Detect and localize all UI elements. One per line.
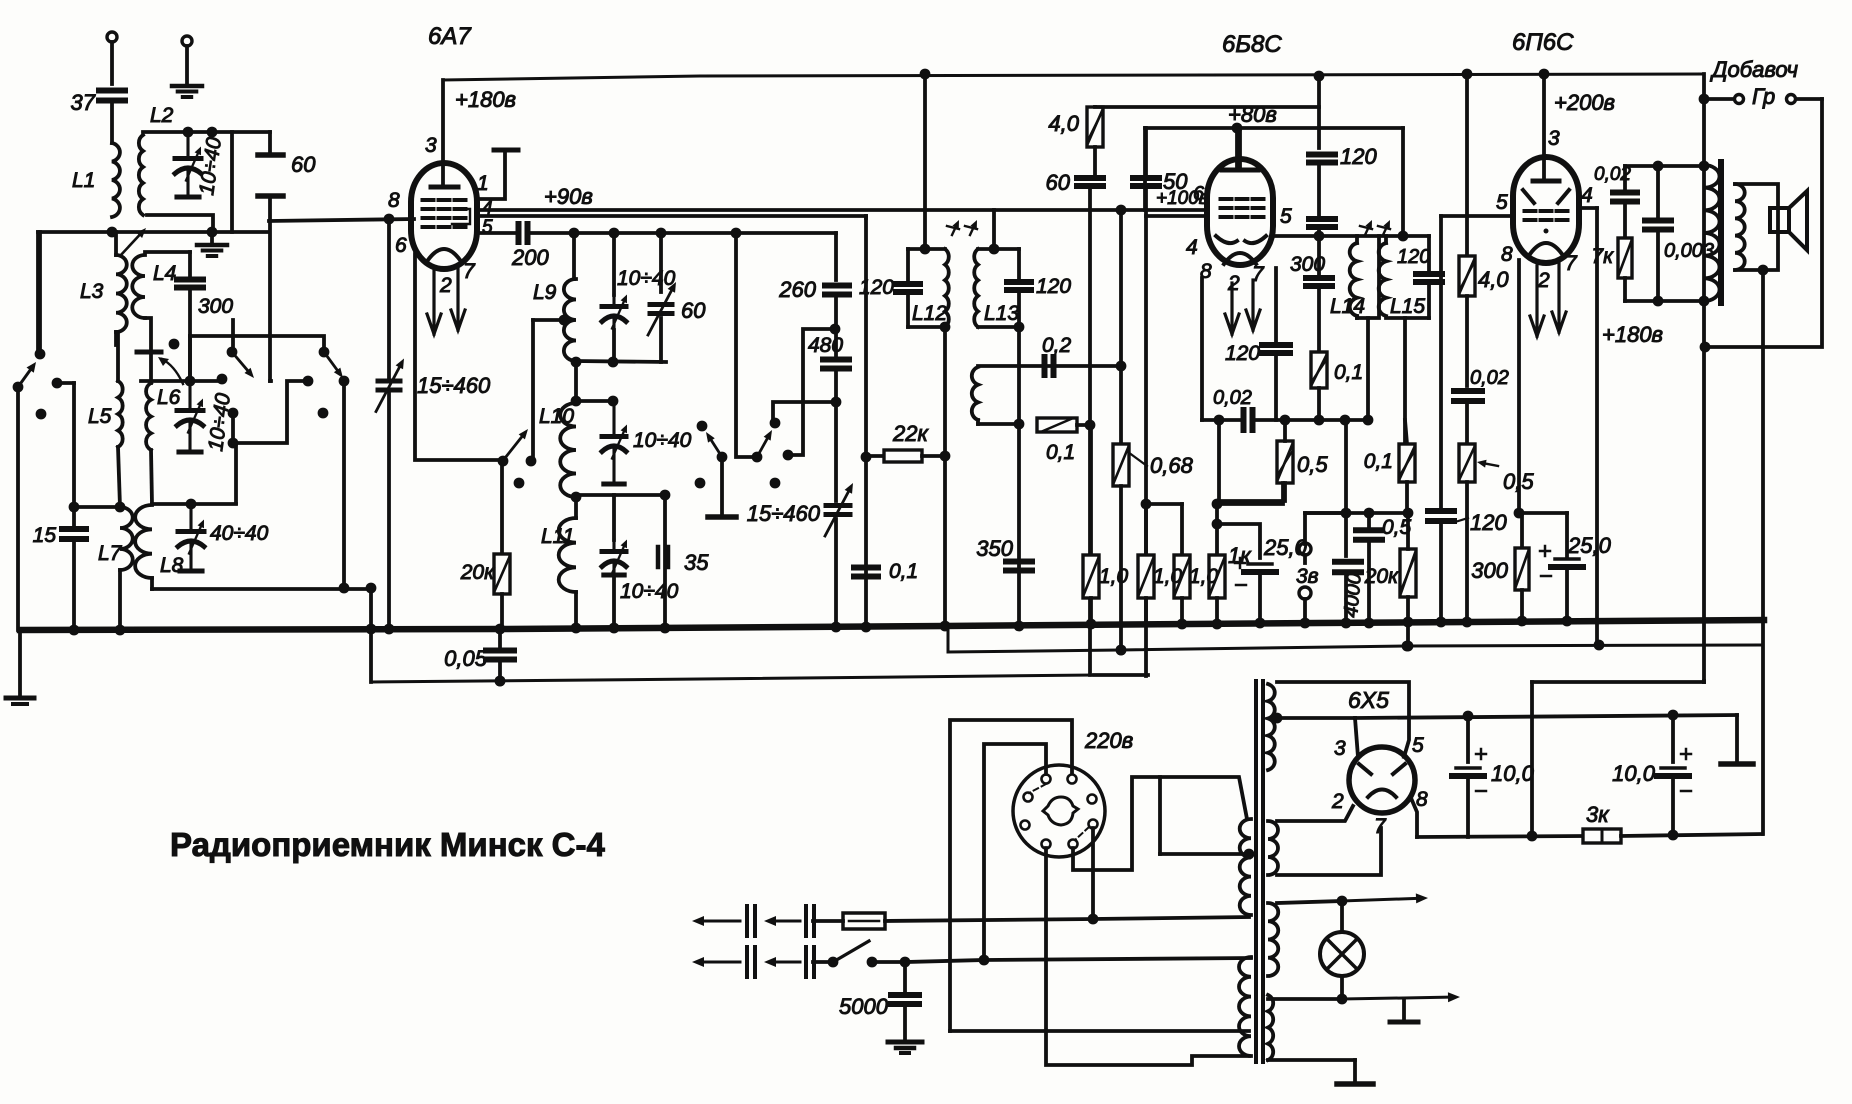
wire socket pin to primary bottom (1046, 848, 1249, 1065)
wire 6A7 signal grid to tuning (269, 219, 414, 221)
wire screen feed down (864, 216, 868, 627)
wire 4.0 top (1095, 105, 1319, 109)
inductor L6 (149, 352, 153, 383)
tube 6P6S plate bar (1533, 179, 1559, 184)
switch S1c lever (319, 347, 330, 358)
wire plate top to output transformer (1702, 74, 1706, 301)
mains plug prong upper (704, 920, 740, 923)
inductor L10 (571, 396, 582, 407)
inductor L12 tank (908, 247, 945, 251)
wire node row y232 (38, 230, 269, 234)
capacitor at pin5 node (1309, 216, 1335, 222)
inductor L8 (135, 505, 152, 578)
switch S1b lever (227, 347, 238, 358)
svg-text:+180в: +180в (455, 87, 516, 112)
tube 6X5 envelope (1349, 747, 1415, 813)
power transformer secondary HV winding (1268, 684, 1275, 770)
svg-text:300: 300 (1471, 558, 1508, 583)
resistor 0.5 detector (1277, 441, 1293, 483)
resistor 0.1 IF2 left (1311, 352, 1327, 388)
svg-text:+200в: +200в (1554, 90, 1615, 115)
svg-text:3в: 3в (1296, 565, 1319, 588)
capacitor 200 series (516, 224, 522, 242)
tube 6A7 plate bar (431, 185, 458, 190)
inductor L4 (132, 255, 145, 318)
capacitor 60 input (268, 132, 272, 153)
svg-text:7: 7 (1565, 252, 1578, 275)
wire speaker secondary return riser (1530, 682, 1534, 836)
wire socket pin to primary middle (984, 744, 1046, 960)
capacitor 0.02 tone (1623, 166, 1627, 188)
tube 6A7 grid bracket (452, 209, 470, 224)
ground at 5000 (888, 1040, 922, 1045)
ground bottom left (18, 630, 22, 697)
switch S1b contacts (228, 408, 239, 419)
wire 6P6S screen to +180 (1580, 206, 1597, 210)
fuse (843, 913, 885, 929)
tube 6B8S heater arrows (1230, 283, 1233, 334)
oscillator band switch lever left (697, 421, 708, 432)
dial lamp (1340, 901, 1344, 932)
capacitor 480 (834, 329, 838, 356)
inductor L5 (116, 332, 120, 381)
output transformer core (1718, 162, 1724, 303)
terminal 3v lower (1299, 587, 1311, 599)
ground symbol at input (172, 84, 202, 89)
wire y513 (1307, 511, 1408, 515)
capacitor 300 of L4 (177, 277, 203, 283)
svg-text:3: 3 (1548, 127, 1560, 150)
wire plate feed to L12 (923, 73, 927, 249)
svg-text:5000: 5000 (839, 994, 889, 1019)
wire 6P6S grid (1441, 214, 1510, 218)
svg-text:10÷40: 10÷40 (633, 429, 692, 452)
capacitor 350 (1006, 559, 1032, 565)
resistor 20k second (1400, 549, 1416, 597)
svg-text:15÷460: 15÷460 (747, 501, 821, 526)
tube 6P6S cathode dot (1544, 229, 1549, 234)
inductor L7 (118, 447, 120, 507)
svg-text:220в: 220в (1084, 728, 1133, 753)
second bus AVC line (371, 675, 1094, 682)
svg-text:5: 5 (1280, 205, 1292, 228)
inductor L13 tank (978, 247, 1019, 251)
wire +80v rail (1145, 126, 1403, 130)
inductor L2 (139, 135, 143, 215)
svg-text:1,0: 1,0 (1099, 565, 1129, 588)
wire primary tap (1158, 777, 1162, 854)
capacitor 25.0 cathode (1519, 511, 1567, 515)
svg-text:25,0: 25,0 (1567, 533, 1612, 558)
tube 6P6S grid dashes (1525, 209, 1536, 213)
tube 6B8S plate bar (1222, 168, 1258, 173)
power transformer primary winding lower (1239, 957, 1251, 1056)
wire AVC vertical to line B (1088, 425, 1092, 675)
wire L2 bottom (147, 215, 213, 232)
svg-text:L15: L15 (1390, 295, 1425, 318)
wire heater winding bottom with arrow (1268, 997, 1342, 1001)
coupling adjust arrows L12 L13 (952, 227, 956, 235)
svg-text:L11: L11 (541, 525, 574, 548)
svg-text:1: 1 (477, 172, 489, 195)
oscillator switch lever (505, 437, 522, 458)
wire L2 top (143, 130, 270, 134)
switch S1a throw to L7 (52, 378, 63, 389)
inductor L3 (114, 232, 118, 255)
wire L9 tap (559, 315, 570, 326)
wire cathode plus rail (1417, 836, 1583, 837)
svg-text:Гр: Гр (1752, 84, 1775, 109)
resistor 1.0 a (1089, 425, 1093, 555)
svg-text:120: 120 (1036, 275, 1071, 298)
svg-text:2: 2 (1331, 790, 1344, 813)
svg-text:120: 120 (859, 276, 894, 299)
wire L8 bottom rail (150, 578, 154, 589)
resistor 0.68 (1113, 444, 1129, 486)
tube 6B8S envelope (1207, 159, 1273, 265)
wire bottom winding to ground (1268, 1058, 1355, 1062)
svg-text:1,0: 1,0 (1189, 565, 1219, 588)
svg-text:Добавоч: Добавоч (1709, 57, 1798, 82)
svg-text:0,05: 0,05 (444, 646, 488, 671)
resistor 4.0 first (1093, 105, 1097, 109)
switch S1a lever (13, 382, 24, 393)
wire heater winding top with arrow (1277, 901, 1342, 903)
svg-text:L2: L2 (150, 104, 174, 127)
resistor 22k (868, 454, 885, 458)
svg-text:+180в: +180в (1602, 322, 1663, 347)
svg-text:0,1: 0,1 (1364, 450, 1393, 473)
wire L2 top right down (230, 132, 234, 232)
inductor L14 (1350, 243, 1357, 316)
wire over switch (190, 336, 324, 352)
socket pin holes (1042, 775, 1051, 784)
svg-text:6Б8С: 6Б8С (1222, 31, 1282, 58)
wire contact to L5 column (233, 381, 308, 443)
capacitor 300 IF2 (1317, 236, 1321, 274)
adjustable core arrow L1/L2 (120, 235, 139, 256)
wire 4.0 second column (1462, 69, 1473, 80)
tube 6P6S cathode (1530, 243, 1562, 254)
svg-text:60: 60 (681, 298, 706, 323)
svg-text:10,0: 10,0 (1612, 761, 1656, 786)
svg-text:L7: L7 (98, 542, 123, 565)
resistor 1.0 b (1144, 504, 1148, 555)
svg-text:0,5: 0,5 (1297, 452, 1328, 477)
wire line C +180 rail (948, 627, 1761, 652)
wire rectifier cathode rail top (1355, 715, 1737, 718)
power transformer winding heaters (1268, 903, 1278, 976)
trimmer capacitor 10/40 of L2 (175, 156, 201, 161)
wire 1k top to 0.5 (1217, 483, 1283, 504)
capacitor 0.003 (1656, 166, 1660, 216)
tube 6P6S envelope (1513, 157, 1579, 263)
wire S1c to coil bottom rail (342, 381, 346, 588)
svg-text:4000: 4000 (1340, 572, 1366, 618)
resistor 4.0 second (1459, 256, 1475, 296)
resistor 0.1 second (1405, 420, 1407, 444)
oscillator switch spare contact (695, 478, 706, 489)
svg-text:0,003: 0,003 (1664, 240, 1714, 262)
tube 6P6S beam plates (1523, 190, 1534, 203)
svg-text:L3: L3 (80, 280, 104, 303)
wire osc column to L10 (574, 362, 578, 403)
ground at L2 cold end (210, 232, 214, 243)
wire osc coil top (978, 364, 1121, 368)
svg-text:0,1: 0,1 (889, 560, 918, 583)
wire 3k to right riser (1621, 834, 1762, 836)
socket key center (1043, 797, 1078, 825)
wire L3 to band switch (114, 332, 118, 345)
svg-text:7к: 7к (1591, 245, 1614, 268)
svg-text:15÷460: 15÷460 (417, 373, 491, 398)
trimmer capacitor 10/40 mid (602, 434, 626, 439)
switch S1c spare contact (318, 408, 329, 419)
power transformer winding 6X5 heater (1268, 821, 1278, 875)
capacitor 0.2 series (1042, 357, 1048, 375)
inductor L11 (559, 518, 576, 592)
tuning gang 15/460 first section (387, 219, 391, 377)
band switch wiper arrow (162, 359, 183, 384)
capacitor 50 (1133, 175, 1159, 181)
wire fuse to transformer (885, 919, 1093, 921)
inductor L15 (1379, 243, 1386, 316)
wire 6B8S grid entry (1146, 214, 1203, 218)
svg-text:22к: 22к (892, 421, 929, 446)
antenna terminal (107, 32, 117, 42)
svg-text:5: 5 (1412, 734, 1424, 757)
svg-text:8: 8 (388, 189, 400, 212)
wire L4 box (145, 250, 190, 254)
svg-text:L5: L5 (88, 405, 112, 428)
wire antenna coil to switch (36, 232, 40, 354)
wire lever to 480 cap (773, 402, 836, 423)
trimmer capacitor 10/40 bottom (612, 495, 616, 540)
wire tone network top (1625, 164, 1704, 168)
wire 6A7 pin6 box (415, 254, 503, 460)
capacitor 10.0 first (1466, 716, 1470, 762)
svg-text:20к: 20к (460, 561, 495, 584)
wire mid switch (268, 221, 272, 381)
tube 6B8S cathode (1224, 253, 1256, 264)
svg-text:0,1: 0,1 (1334, 361, 1363, 384)
svg-text:2: 2 (1537, 269, 1550, 292)
wire HV tap to plate 3 (1277, 716, 1355, 720)
ground on heater line (1402, 999, 1406, 1020)
output transformer secondary (1735, 184, 1745, 270)
svg-text:480: 480 (808, 334, 843, 357)
power transformer primary winding upper (1240, 819, 1251, 915)
band switch wiper bar (137, 350, 161, 355)
switch S1a contact (36, 409, 47, 420)
ground terminal (182, 36, 192, 46)
wire L10 tap row (576, 399, 613, 403)
inductor L1 (112, 143, 120, 217)
svg-text:3: 3 (1334, 737, 1346, 760)
wire 6A7 pin4 to 6B8S grid (481, 208, 1203, 212)
svg-text:Радиоприемник Минск С-4: Радиоприемник Минск С-4 (170, 826, 605, 863)
svg-text:300: 300 (1290, 253, 1325, 276)
wire L9 bottom rail (576, 361, 666, 362)
tube 6A7 grid dashes (423, 198, 434, 202)
wire switch to transformer (905, 960, 984, 962)
speaker (1770, 208, 1789, 232)
wire L13 bottom down to bus (1017, 327, 1021, 626)
trimmer capacitor 10/40 osc top (612, 233, 616, 295)
svg-text:10÷40: 10÷40 (620, 580, 679, 603)
capacitor 0.1 at 22k (854, 565, 878, 571)
wire socket pin to primary top (1073, 777, 1247, 870)
resistor 3k (1583, 829, 1621, 843)
svg-text:L4: L4 (153, 262, 176, 285)
svg-text:6Х5: 6Х5 (1348, 687, 1389, 713)
power transformer core (1254, 681, 1258, 1062)
tube 6A7 heater arrows pins 2 7 (432, 270, 435, 334)
svg-text:4,0: 4,0 (1478, 267, 1509, 292)
svg-text:3: 3 (425, 134, 437, 157)
wire L7 top rail (74, 505, 120, 509)
trimmer capacitor 40/40 of L8 (178, 529, 204, 534)
svg-text:20к: 20к (1364, 565, 1399, 588)
wire socket pin chain (1091, 828, 1095, 914)
wire 1.0a top (1146, 502, 1182, 506)
resistor 0.1 oscillator (1037, 418, 1077, 432)
wire rail to second bus (369, 588, 373, 682)
wire x1403 from +80v (1401, 128, 1405, 236)
oscillator switch contacts (498, 456, 509, 467)
svg-text:L14: L14 (1330, 295, 1365, 318)
tube 6B8S diode anodes (1216, 236, 1237, 243)
inductor L9 (572, 233, 576, 279)
svg-text:1,0: 1,0 (1153, 565, 1183, 588)
capacitor 60 decoupling (1077, 175, 1103, 181)
socket box outline (950, 720, 1072, 1031)
wire 6X5 pin8 to cathode rail (1411, 798, 1417, 837)
mains plug prong lower (704, 961, 740, 964)
grid cap of 6A7 pin1 (477, 152, 505, 199)
capacitor 260 (834, 233, 838, 280)
svg-text:0,1: 0,1 (1046, 441, 1075, 464)
svg-text:350: 350 (976, 536, 1013, 561)
socket dashed chords (1029, 784, 1046, 793)
svg-text:6А7: 6А7 (428, 23, 472, 50)
variable capacitor 15/460 osc section (834, 402, 838, 501)
wire L4 bottom to contact bar (145, 318, 151, 351)
capacitor 120 under 6B8S (1274, 268, 1278, 341)
wire L14 bottom down (1366, 318, 1370, 420)
wire L13 top to grid wire (992, 210, 996, 249)
svg-text:7: 7 (463, 260, 476, 283)
svg-text:L1: L1 (72, 169, 95, 192)
tube 6X5 cathode (1368, 790, 1396, 798)
wire L6 top to contacts (141, 379, 222, 383)
tube 6X5 plates (1359, 764, 1371, 774)
svg-text:120: 120 (1470, 510, 1507, 535)
oscillator switch spare contact 2 (770, 478, 781, 489)
svg-text:+90в: +90в (544, 184, 593, 209)
wire speaker return right edge (1705, 99, 1822, 347)
tube 6B8S grid dashes (1221, 197, 1232, 201)
potentiometer 0.5 tone (1459, 444, 1475, 482)
svg-text:6П6С: 6П6С (1512, 29, 1574, 56)
svg-text:200: 200 (511, 245, 549, 270)
resistor 1k (1215, 504, 1219, 555)
svg-text:0,02: 0,02 (1470, 367, 1509, 389)
capacitor 37 (99, 88, 125, 94)
svg-text:10÷40: 10÷40 (617, 267, 676, 290)
svg-text:15: 15 (33, 524, 57, 547)
capacitor 120 screen top (1309, 152, 1335, 158)
wire 6X5 heater bottom (1277, 828, 1381, 875)
svg-text:L13: L13 (984, 302, 1019, 325)
capacitor 5000 (903, 962, 907, 992)
output transformer primary (1704, 165, 1720, 301)
capacitor 0.02 AVC series (1200, 278, 1204, 420)
coupling adjust arrows L14 L15 (1365, 227, 1369, 235)
svg-text:3к: 3к (1586, 802, 1610, 827)
wire 4000 column (1344, 420, 1348, 513)
tube 6A7 cathode (428, 249, 460, 260)
wire y233 6A7 pin5 rail (479, 231, 517, 235)
svg-text:60: 60 (291, 152, 316, 177)
wire L15 bottom down (1403, 318, 1407, 444)
wire L10/L11 junction rail (571, 492, 582, 503)
resistor 7k (1618, 238, 1632, 278)
wire top rail node to 6B8S zone (1314, 71, 1325, 82)
wire HV top to plate (1277, 682, 1409, 757)
wire L12 bottom down (943, 327, 947, 626)
svg-text:260: 260 (778, 277, 816, 302)
svg-text:0,02: 0,02 (1213, 387, 1252, 409)
wire osc switch to 480 node (788, 329, 835, 455)
capacitor 15 (72, 383, 76, 527)
wire secondary to speaker loop (1735, 184, 1778, 270)
wire 6B8S plate to IF2 (1272, 234, 1429, 238)
svg-text:4: 4 (1581, 184, 1593, 207)
ground on cathode rail (1735, 715, 1739, 762)
svg-text:L12: L12 (912, 302, 947, 325)
capacitor 25.0 electrolytic (1217, 524, 1260, 558)
capacitor 10.0 second (1671, 715, 1675, 762)
wire riser top to output transformer (1532, 680, 1704, 684)
svg-text:10,0: 10,0 (1491, 761, 1535, 786)
svg-text:300: 300 (198, 295, 233, 318)
wire padder feed (736, 233, 751, 457)
mains switch (828, 957, 839, 968)
svg-text:L9: L9 (533, 281, 557, 304)
svg-text:37: 37 (71, 90, 96, 115)
svg-text:2: 2 (439, 274, 452, 297)
oscillator band switch lever right (752, 452, 763, 463)
svg-text:6: 6 (1193, 183, 1205, 205)
terminal 3v upper (1299, 543, 1311, 555)
svg-text:120: 120 (1397, 246, 1430, 268)
capacitor 120 grid 6P6S (1439, 216, 1443, 507)
svg-text:60: 60 (1046, 170, 1071, 195)
wire top HT rail (443, 74, 1704, 80)
wire S1 to ground bus (16, 387, 20, 630)
capacitor 4000 (1344, 513, 1348, 556)
power transformer winding bottom (1268, 995, 1273, 1060)
wire osc coil bottom (976, 420, 980, 424)
svg-text:35: 35 (684, 550, 709, 575)
wire socket bottom rail (950, 1029, 1249, 1033)
capacitor 0.5 b (1367, 513, 1371, 526)
svg-text:40÷40: 40÷40 (210, 522, 269, 545)
capacitor 120 L15 (1416, 271, 1442, 277)
svg-text:4: 4 (1186, 236, 1198, 259)
capacitor 0.02 second (1454, 388, 1482, 394)
